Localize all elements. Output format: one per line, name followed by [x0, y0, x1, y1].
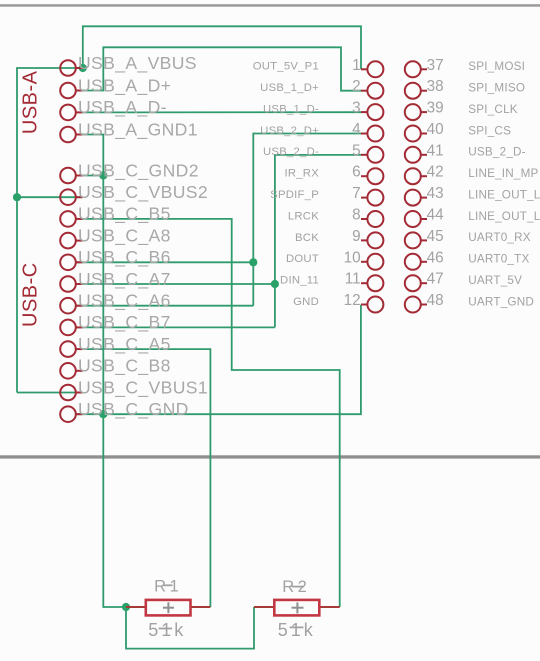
pin 5 (USB_2_D-) [361, 147, 383, 163]
svg-text:USB_C_B8: USB_C_B8 [78, 356, 171, 377]
svg-text:USB_A_D-: USB_A_D- [78, 97, 167, 118]
wire USB_2_D- net: USB_C_A7 branch [76, 283, 275, 285]
pin USB_C_GND [60, 406, 82, 422]
junction USB_2_D+ at USB_C_B6 [249, 258, 257, 266]
svg-text:USB_2_D+: USB_2_D+ [260, 125, 319, 137]
svg-text:USB_A_GND1: USB_A_GND1 [78, 119, 198, 140]
pin 39 (SPI_CLK) [405, 104, 427, 120]
pin 6 (IR_RX) [361, 168, 383, 184]
pin USB_C_GND2 [60, 168, 82, 184]
svg-text:3: 3 [352, 100, 361, 117]
svg-text:USB_2_D-: USB_2_D- [468, 146, 525, 159]
pin 47 (UART_5V) [405, 275, 427, 291]
pin 10 (DOUT) [361, 254, 383, 270]
value 51k (R2) [278, 620, 316, 640]
label R1 [154, 578, 182, 596]
wire USB_2_D+ net: USB_C_B6 branch [76, 261, 253, 263]
svg-text:UART0_RX: UART0_RX [468, 231, 530, 244]
svg-text:USB_C_B7: USB_C_B7 [78, 312, 171, 333]
pin 9 (BCK) [361, 232, 383, 248]
svg-text:R1: R1 [154, 578, 182, 596]
pin USB_C_B5 [60, 211, 82, 227]
pin 45 (UART0_RX) [405, 232, 427, 248]
resistor R2 [254, 600, 340, 616]
svg-text:47: 47 [427, 271, 444, 288]
svg-text:USB_A_D+: USB_A_D+ [78, 75, 171, 96]
svg-text:GND: GND [293, 296, 319, 308]
svg-text:48: 48 [427, 292, 444, 309]
wire USB_2_D- net: pin 5 vertical [275, 155, 361, 328]
svg-text:USB_C_B5: USB_C_B5 [78, 204, 171, 225]
pin 3 (USB_1_D-) [361, 104, 383, 120]
svg-text:LINE_OUT_LL: LINE_OUT_LL [468, 210, 540, 223]
svg-text:USB_C_A7: USB_C_A7 [78, 269, 171, 290]
pin USB_A_GND1 [60, 127, 82, 143]
pin 41 (USB_2_D-) [405, 147, 427, 163]
svg-text:USB_C_GND: USB_C_GND [78, 399, 189, 420]
svg-text:DIN_11: DIN_11 [280, 275, 319, 287]
svg-text:IR_RX: IR_RX [284, 168, 319, 180]
svg-text:USB_C_A8: USB_C_A8 [78, 225, 171, 246]
label R2 [282, 578, 310, 596]
pin 1 (OUT_5V_P1) [361, 61, 383, 77]
pin 48 (UART_GND) [405, 297, 427, 313]
svg-text:UART_5V: UART_5V [468, 274, 522, 287]
svg-text:USB_C_VBUS1: USB_C_VBUS1 [78, 377, 208, 398]
svg-text:46: 46 [427, 249, 444, 266]
svg-text:OUT_5V_P1: OUT_5V_P1 [253, 61, 319, 73]
pin USB_A_VBUS [60, 60, 82, 76]
svg-text:11: 11 [345, 271, 361, 288]
svg-text:USB_C_GND2: USB_C_GND2 [78, 160, 199, 181]
pin 44 (LINE_OUT_LL) [405, 211, 427, 227]
pin 38 (SPI_MISO) [405, 83, 427, 99]
wire VBUS net: USB_C_VBUS1 branch [17, 392, 83, 394]
pin 8 (LRCK) [361, 211, 383, 227]
svg-text:43: 43 [427, 185, 444, 202]
wire VBUS net: top run to pin 1 [83, 26, 361, 69]
svg-text:SPI_CLK: SPI_CLK [468, 103, 517, 116]
svg-text:10: 10 [344, 249, 361, 266]
svg-text:51k: 51k [278, 620, 316, 640]
pin USB_C_VBUS1 [60, 385, 82, 401]
wire USB_2_D- net: USB_C_B7 branch [76, 326, 275, 328]
wire VBUS net: USB_C_VBUS2 branch [17, 196, 83, 198]
svg-text:USB-A: USB-A [20, 70, 42, 134]
svg-text:39: 39 [427, 100, 444, 117]
junction GND at USB_C_GND2 [99, 171, 107, 179]
pin 12 (GND) [361, 297, 383, 313]
svg-text:USB_C_B6: USB_C_B6 [78, 247, 171, 268]
svg-text:LINE_IN_MP: LINE_IN_MP [468, 167, 538, 180]
svg-text:UART0_TX: UART0_TX [468, 253, 529, 266]
pin 7 (SPDIF_P) [361, 190, 383, 206]
wire USB_2_D+ net: USB_C_A6 branch [76, 305, 253, 307]
pin USB_A_D- [60, 105, 82, 121]
svg-text:6: 6 [352, 164, 361, 181]
top frame rule [0, 4, 540, 7]
svg-text:7: 7 [352, 185, 361, 202]
wire USB_1_D+ net: USB_A_D+ to pin 2 [83, 47, 362, 90]
svg-text:DOUT: DOUT [286, 253, 319, 265]
pin USB_C_B8 [60, 363, 82, 379]
pin 43 (LINE_OUT_LF) [405, 190, 427, 206]
pin USB_C_A7 [60, 276, 82, 292]
wire VBUS net: left rail and USB_A_VBUS row [17, 68, 83, 393]
svg-text:44: 44 [427, 207, 445, 224]
svg-text:45: 45 [427, 228, 444, 245]
svg-text:8: 8 [352, 207, 361, 224]
junction GND at R1 left terminal [122, 603, 130, 611]
pin 42 (LINE_IN_MP) [405, 168, 427, 184]
pin 46 (UART0_TX) [405, 254, 427, 270]
svg-text:SPI_CS: SPI_CS [468, 124, 511, 137]
svg-text:USB_1_D+: USB_1_D+ [260, 82, 319, 94]
svg-text:USB-C: USB-C [20, 262, 42, 327]
resistor R1 [126, 600, 210, 616]
pin USB_A_D+ [60, 83, 82, 99]
svg-text:LRCK: LRCK [288, 210, 319, 222]
pin USB_C_A5 [60, 341, 82, 357]
pin USB_C_A6 [60, 298, 82, 314]
wire GND net: bottom rail to R2 left [126, 607, 254, 649]
svg-text:51k: 51k [148, 620, 186, 640]
pin USB_C_B7 [60, 320, 82, 336]
wire GND net: USB_C_GND row to pin 12 [76, 305, 361, 415]
wire GND net: USB_A_GND1 down main vertical [83, 135, 127, 608]
svg-text:USB_C_A6: USB_C_A6 [78, 291, 171, 312]
junction VBUS at USB_C_VBUS2 [13, 193, 21, 201]
svg-text:USB_C_A5: USB_C_A5 [78, 334, 171, 355]
junction GND at USB_C_GND [99, 410, 107, 418]
svg-text:42: 42 [427, 164, 444, 181]
wire GND net: USB_C_GND2 branch [76, 175, 103, 177]
pin 11 (DIN_11) [361, 275, 383, 291]
pin 2 (USB_1_D+) [361, 83, 383, 99]
svg-text:12: 12 [344, 292, 361, 309]
svg-text:SPI_MISO: SPI_MISO [468, 82, 525, 95]
junction USB_2_D- at USB_C_A7 [271, 280, 279, 288]
svg-text:USB_A_VBUS: USB_A_VBUS [78, 53, 197, 74]
pin USB_C_VBUS2 [60, 189, 82, 205]
pin USB_C_B6 [60, 254, 82, 270]
svg-text:SPDIF_P: SPDIF_P [270, 189, 319, 201]
wire CC_B5 net: USB_C_B5 to R2 right [76, 219, 340, 607]
svg-text:USB_1_D-: USB_1_D- [263, 104, 319, 116]
svg-text:37: 37 [427, 57, 444, 74]
wire USB_1_D- net: USB_A_D- to pin 3 [83, 111, 362, 113]
svg-text:2: 2 [352, 78, 361, 95]
pin 37 (SPI_MOSI) [405, 61, 427, 77]
pin 40 (SPI_CS) [405, 126, 427, 142]
pin USB_C_A8 [60, 233, 82, 249]
wire USB_2_D+ net: pin 4 vertical [253, 134, 361, 306]
pin 4 (USB_2_D+) [361, 126, 383, 142]
junction VBUS at USB_A_VBUS [79, 64, 87, 72]
svg-text:38: 38 [427, 78, 444, 95]
svg-text:USB_2_D-: USB_2_D- [263, 146, 319, 158]
svg-text:USB_C_VBUS2: USB_C_VBUS2 [78, 182, 208, 203]
svg-text:4: 4 [352, 121, 361, 138]
svg-text:1: 1 [352, 57, 361, 74]
svg-text:UART_GND: UART_GND [468, 295, 534, 308]
wire CC_A5 net: USB_C_A5 to R1 right [76, 349, 210, 607]
svg-text:5: 5 [352, 142, 361, 159]
bottom frame rule [0, 455, 540, 458]
svg-text:41: 41 [427, 142, 444, 159]
svg-text:40: 40 [427, 121, 444, 138]
svg-text:LINE_OUT_LF: LINE_OUT_LF [468, 188, 540, 201]
svg-text:BCK: BCK [295, 232, 319, 244]
svg-text:9: 9 [352, 228, 361, 245]
value 51k (R1) [148, 620, 186, 640]
svg-text:SPI_MOSI: SPI_MOSI [468, 60, 525, 73]
